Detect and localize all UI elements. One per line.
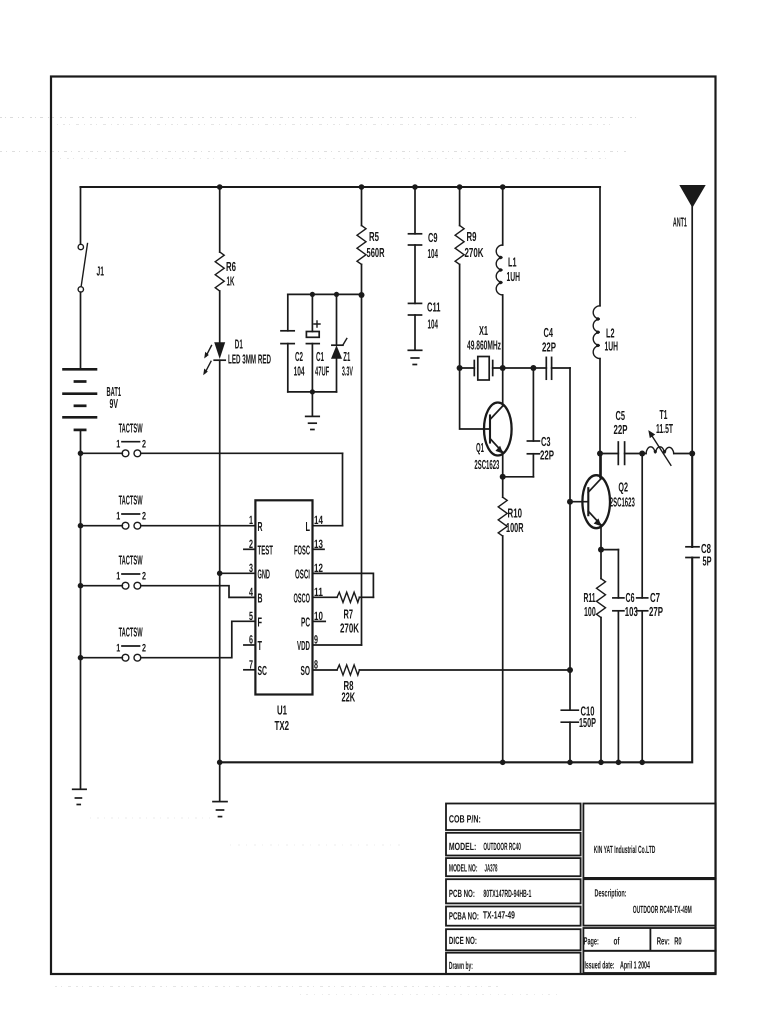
svg-text:C4: C4 [544, 325, 554, 340]
tact switch SW row4 TACTSW [81, 621, 256, 661]
inductor L1 1UH [496, 187, 520, 295]
svg-text:150P: 150P [579, 715, 596, 730]
svg-text:1: 1 [249, 513, 253, 527]
node: D1 line to bottom rail [217, 760, 223, 766]
pin 14 L wire [306, 513, 343, 534]
ground at C11 [408, 315, 421, 365]
wire: Q2 emitter down [600, 525, 602, 550]
svg-text:R5: R5 [369, 229, 379, 244]
node: Q2 base branch [567, 499, 573, 505]
node: R8 wire junction [567, 667, 573, 673]
svg-text:JA378: JA378 [485, 863, 498, 875]
svg-text:TEST: TEST [258, 543, 274, 558]
svg-text:Q1: Q1 [476, 440, 484, 455]
wire: rail to R5 [361, 187, 363, 226]
svg-text:103: 103 [625, 604, 638, 619]
scan noise band 1 [0, 118, 640, 995]
svg-text:104: 104 [294, 363, 305, 378]
svg-text:270K: 270K [340, 620, 359, 635]
pin 6 T [244, 633, 262, 654]
svg-text:27P: 27P [649, 604, 663, 619]
pin 9 VDD wire [297, 633, 362, 654]
svg-text:4: 4 [249, 585, 253, 599]
svg-text:T1: T1 [660, 407, 668, 422]
svg-text:TACTSW: TACTSW [119, 553, 143, 568]
svg-text:2: 2 [142, 511, 146, 523]
svg-text:MODEL NO:: MODEL NO: [449, 863, 478, 875]
resistor R10 100R [498, 477, 524, 536]
svg-text:R6: R6 [226, 259, 236, 274]
svg-text:100: 100 [584, 604, 596, 619]
op IC U1 TX2 box [255, 500, 312, 694]
svg-text:5P: 5P [703, 554, 712, 569]
pin 1 R [249, 513, 263, 534]
node: crystal right / L1 / Q1 collector [500, 365, 506, 371]
svg-text:1: 1 [116, 438, 120, 450]
svg-text:49.860MHz: 49.860MHz [467, 338, 501, 353]
svg-text:F: F [258, 615, 263, 630]
wire: battery to left rail [80, 430, 82, 788]
crystal X1 49.860MHz [460, 323, 534, 380]
node: rail junction R6 [217, 184, 223, 190]
pin 3 GND wire [220, 561, 270, 582]
svg-text:B: B [258, 591, 263, 606]
svg-text:1: 1 [116, 643, 120, 655]
node: C4 left / C3 top [530, 365, 536, 371]
svg-text:Page:: Page: [584, 935, 599, 947]
capacitor C6 103 [613, 550, 638, 763]
border frame [51, 77, 716, 975]
svg-text:2SC1623: 2SC1623 [610, 495, 635, 510]
svg-text:11: 11 [314, 585, 323, 599]
pin 13 FOSC [294, 537, 324, 558]
svg-text:C1: C1 [316, 349, 324, 364]
capacitor C9 104 [409, 187, 439, 261]
wire: Q1 emitter down [502, 452, 504, 477]
svg-text:104: 104 [428, 316, 439, 331]
wire: rail to R6 [219, 187, 221, 252]
svg-text:22P: 22P [540, 447, 554, 462]
svg-text:10: 10 [314, 609, 323, 623]
top supply rail wire [81, 186, 601, 188]
wire: rail to J1 [80, 187, 82, 244]
wire: R11 to bottom rail [600, 618, 602, 763]
svg-text:TACTSW: TACTSW [119, 421, 143, 436]
tact switch SW row2 TACTSW [81, 493, 256, 529]
svg-text:1: 1 [116, 571, 120, 583]
node: Z1 top [334, 292, 339, 297]
wire: C4 right corner down (x570 line) [569, 368, 571, 710]
svg-text:OSCO: OSCO [294, 591, 311, 606]
node: C1 top [310, 292, 315, 297]
svg-text:COB P/N:: COB P/N: [449, 814, 481, 826]
wire: emitter node to C6 corner [601, 549, 618, 551]
svg-text:9: 9 [314, 633, 318, 647]
wire: rail corner down to L2 [599, 187, 601, 306]
svg-text:6: 6 [249, 633, 253, 647]
capacitor C11 104 [409, 300, 441, 332]
svg-text:T: T [258, 638, 263, 653]
svg-text:L: L [306, 519, 311, 534]
svg-text:R: R [258, 519, 263, 534]
node: R10 bottom [500, 760, 506, 766]
svg-text:FOSC: FOSC [294, 543, 310, 558]
wire: R5 down to VDD corner [361, 264, 363, 645]
svg-text:D1: D1 [235, 336, 243, 351]
resistor R8 22K [337, 665, 570, 705]
wire: Q1 base from crystal node [460, 368, 489, 429]
ground at D1 line bottom [213, 762, 227, 816]
svg-text:SC: SC [258, 663, 268, 678]
svg-text:80TX147RD-94HB-1: 80TX147RD-94HB-1 [483, 888, 531, 900]
svg-text:Rev:: Rev: [657, 935, 670, 947]
svg-text:OUTDOOR RC40: OUTDOOR RC40 [483, 841, 521, 853]
svg-text:47UF: 47UF [315, 363, 329, 378]
wire: Q1 collector up to crystal node [502, 368, 504, 406]
svg-text:KIN YAT Industrial Co.LTD: KIN YAT Industrial Co.LTD [594, 844, 656, 856]
svg-text:MODEL:: MODEL: [449, 841, 476, 853]
transistor Q2 2SC1623 [582, 475, 634, 528]
wire: rail to R9 [459, 187, 461, 226]
capacitor C7 27P [637, 454, 663, 763]
wire: regulator block top [288, 293, 362, 295]
svg-text:DICE NO:: DICE NO: [449, 935, 477, 947]
capacitor C3 22P [527, 368, 554, 477]
svg-text:104: 104 [428, 246, 439, 261]
title block [446, 804, 716, 975]
node: R11 bottom [598, 760, 604, 766]
pin 8 SO wire [301, 658, 338, 679]
svg-text:R9: R9 [467, 229, 477, 244]
tact switch SW row3 TACTSW [81, 553, 256, 598]
svg-text:22P: 22P [542, 340, 556, 355]
svg-text:C7: C7 [650, 590, 660, 605]
svg-text:ANT1: ANT1 [673, 215, 687, 230]
resistor R6 1K [215, 252, 236, 291]
svg-text:11.5T: 11.5T [656, 421, 673, 436]
node: row2 [78, 523, 84, 529]
svg-text:270K: 270K [465, 245, 484, 260]
battery BAT1 9V [62, 369, 121, 430]
node: L2 / Q2 collector / C5 wire [597, 451, 603, 457]
wire: R6 to D1 [219, 291, 221, 342]
resistor R11 100 [584, 550, 606, 620]
node: rail junction C9 [412, 184, 418, 190]
capacitor C10 150P [561, 703, 596, 762]
svg-text:2SC1623: 2SC1623 [474, 457, 499, 472]
svg-text:22K: 22K [342, 690, 356, 705]
wire: Q2 base from x570 [570, 501, 588, 503]
pin 4 B [249, 585, 263, 606]
svg-text:9V: 9V [110, 396, 119, 411]
svg-text:R7: R7 [344, 606, 354, 621]
wire: D1 down to bottom rail [219, 360, 221, 762]
svg-text:100R: 100R [506, 520, 524, 535]
resistor R9 270K [455, 226, 484, 265]
wire: R10 to bottom rail [502, 536, 504, 762]
svg-text:1: 1 [116, 511, 120, 523]
wire: C5 T1 line [600, 453, 692, 455]
svg-text:J1: J1 [97, 263, 105, 278]
wire: L2 down to collector node [599, 359, 601, 478]
antenna ANT1 [673, 185, 706, 454]
svg-text:C11: C11 [427, 300, 441, 315]
svg-text:R11: R11 [584, 590, 596, 605]
svg-text:PCBA NO:: PCBA NO: [449, 911, 479, 923]
svg-text:April 1 2004: April 1 2004 [620, 959, 650, 971]
capacitor C4 22P [533, 325, 570, 379]
inductor L2 1UH [593, 306, 618, 359]
ground at regulator block [306, 392, 320, 430]
ground left rail [73, 789, 86, 804]
node: emitter / R11 / C6 [598, 547, 604, 553]
pin 2 TEST [244, 537, 273, 558]
wire: L1 down to crystal node [502, 295, 504, 368]
svg-text:C5: C5 [616, 408, 626, 423]
pin 12 OSCI wire [295, 561, 373, 597]
svg-text:R10: R10 [508, 506, 523, 521]
svg-text:GND: GND [258, 567, 271, 582]
capacitor C5 22P [614, 408, 628, 465]
capacitor C8 5P [686, 541, 712, 569]
svg-text:3: 3 [249, 561, 253, 575]
svg-text:Description:: Description: [595, 888, 627, 900]
svg-text:Q2: Q2 [618, 480, 628, 495]
LED D1 3MM RED [203, 336, 271, 375]
pin 10 PC [301, 609, 325, 630]
svg-text:C2: C2 [295, 349, 303, 364]
node: rail junction R5 [359, 184, 365, 190]
node: C1 bottom [310, 389, 315, 394]
node: rail junction L1 [500, 184, 506, 190]
tact switch SW row1 TACTSW [81, 421, 343, 457]
node: R5 line to regulator block [359, 292, 365, 298]
node: antenna line / T1 right [689, 451, 695, 457]
svg-text:C9: C9 [428, 230, 438, 245]
switch J1 [78, 244, 104, 293]
bottom ground rail wire [220, 454, 693, 763]
svg-text:OSCI: OSCI [295, 567, 310, 582]
svg-text:TACTSW: TACTSW [119, 625, 143, 640]
svg-text:X1: X1 [479, 323, 488, 338]
svg-text:PC: PC [301, 615, 310, 630]
capacitor C2 104 [281, 294, 305, 392]
svg-text:of: of [614, 935, 620, 947]
svg-text:5: 5 [249, 609, 253, 623]
node: C5 right / C7 top / T1 left [639, 451, 645, 457]
svg-text:13: 13 [314, 537, 323, 551]
pin 7 SC [244, 657, 267, 678]
node: C10 bottom rail [567, 760, 573, 766]
node: row1 [78, 451, 84, 457]
node: emitter / R10 / C3 [500, 474, 506, 480]
svg-text:1K: 1K [227, 274, 235, 289]
wire: R9 down to crystal node [459, 264, 461, 368]
svg-text:C6: C6 [626, 590, 635, 605]
svg-text:22P: 22P [614, 422, 628, 437]
svg-text:2: 2 [142, 438, 146, 450]
node: row3 [78, 583, 84, 589]
node: row4 [78, 655, 84, 661]
svg-text:TX-147-49: TX-147-49 [483, 910, 515, 922]
svg-text:2: 2 [142, 643, 146, 655]
node: rail junction R9 [457, 184, 463, 190]
svg-text:TX2: TX2 [275, 718, 290, 733]
svg-text:2: 2 [249, 537, 253, 551]
svg-text:2: 2 [142, 571, 146, 583]
node: C7 bottom [639, 760, 645, 766]
svg-text:14: 14 [314, 513, 323, 527]
node: D1 line to GND pin wire [217, 571, 223, 577]
zener Z1 3.3V [331, 294, 353, 392]
svg-text:TACTSW: TACTSW [119, 493, 143, 508]
resistor R5 560R [357, 226, 385, 265]
wire: Q2 collector up to node [600, 454, 602, 479]
wire: emitter node to C3 bottom [503, 476, 534, 478]
transistor Q1 2SC1623 [474, 403, 511, 473]
svg-text:Drawn by:: Drawn by: [449, 960, 473, 972]
svg-text:U1: U1 [277, 703, 287, 718]
wire: regulator block bottom [288, 391, 337, 393]
svg-text:1UH: 1UH [507, 269, 521, 284]
svg-text:12: 12 [314, 561, 323, 575]
svg-text:L1: L1 [508, 254, 517, 269]
node: C6 bottom [616, 760, 622, 766]
pin 5 F [249, 609, 262, 630]
svg-text:PCB NO:: PCB NO: [449, 888, 475, 900]
svg-text:8: 8 [314, 658, 318, 672]
capacitor C1 47UF electrolytic [306, 294, 329, 392]
wire: J1 to battery [80, 292, 82, 368]
svg-text:3.3V: 3.3V [342, 363, 353, 378]
svg-text:SO: SO [301, 663, 311, 678]
wire: row1 down to pin14 L [342, 453, 344, 525]
wire: C9 to C11 [414, 245, 416, 303]
svg-text:7: 7 [249, 657, 253, 671]
svg-text:VDD: VDD [297, 638, 310, 653]
svg-text:R0: R0 [674, 935, 682, 947]
svg-text:560R: 560R [367, 245, 385, 260]
pin 11 OSCO wire [294, 585, 338, 606]
svg-text:Issued date:: Issued date: [585, 959, 615, 971]
svg-text:Z1: Z1 [343, 349, 350, 364]
inductor T1 11.5T variable [646, 407, 674, 465]
node: crystal left / Q1 base branch [457, 365, 463, 371]
resistor R7 270K [337, 592, 373, 635]
svg-text:OUTDOOR RC40-TX-49M: OUTDOOR RC40-TX-49M [633, 904, 692, 916]
svg-text:1UH: 1UH [605, 338, 619, 353]
svg-text:LED 3MM RED: LED 3MM RED [228, 352, 271, 367]
